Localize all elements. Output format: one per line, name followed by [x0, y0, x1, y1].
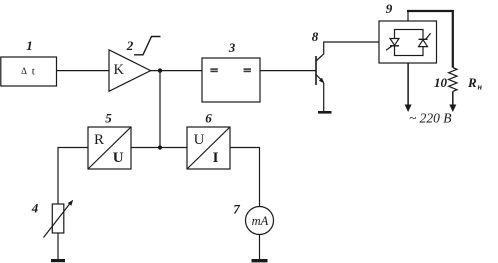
svg-text:R: R — [467, 75, 477, 90]
svg-text:7: 7 — [233, 202, 240, 217]
svg-text:1: 1 — [26, 38, 33, 53]
svg-text:Δ: Δ — [21, 66, 27, 76]
svg-text:н: н — [478, 83, 483, 92]
svg-text:R: R — [94, 132, 104, 148]
svg-text:6: 6 — [205, 111, 212, 126]
svg-text:9: 9 — [386, 1, 393, 16]
svg-text:mA: mA — [252, 214, 269, 228]
svg-text:4: 4 — [31, 201, 39, 216]
svg-text:5: 5 — [105, 111, 112, 126]
svg-text:t: t — [32, 66, 35, 78]
svg-text:10: 10 — [434, 75, 448, 90]
svg-text:2: 2 — [126, 38, 134, 53]
svg-text:~ 220 В: ~ 220 В — [409, 111, 452, 126]
svg-text:U: U — [194, 132, 205, 148]
svg-text:8: 8 — [312, 29, 319, 44]
svg-text:K: K — [114, 62, 125, 78]
svg-text:U: U — [113, 150, 124, 166]
svg-text:3: 3 — [228, 40, 236, 55]
svg-text:I: I — [213, 150, 219, 166]
